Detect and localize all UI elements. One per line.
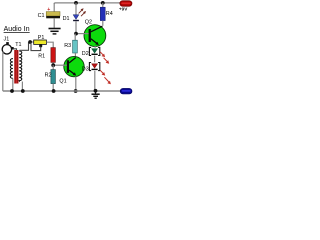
svg-text:Q1: Q1 [59,79,66,85]
svg-text:P1: P1 [38,35,45,41]
wire: top +9V rail [54,2,120,4]
wire: Q2 emitter to D2 [94,46,96,48]
transformer T1 secondary winding [19,51,22,82]
ground below C1 [49,29,61,34]
svg-text:R2: R2 [45,73,52,79]
svg-text:+9V: +9V [119,7,128,12]
svg-text:+: + [47,7,50,13]
svg-text:D1: D1 [63,16,70,22]
svg-text:Q2: Q2 [85,20,92,26]
resistor R4 [100,3,105,26]
wire: secondary to P1 [29,41,34,43]
wire: J1 sleeve to rail [2,52,5,91]
transistor Q1 [64,56,84,76]
wire: primary bottom to rail [12,78,14,91]
node: D1/R3/Q2-base junction [74,32,78,36]
svg-text:T1: T1 [15,42,21,48]
wire: Q1 emitter to rail [75,76,77,90]
pot P1 [31,40,46,51]
svg-text:R4: R4 [106,11,113,17]
battery positive terminal [120,1,132,7]
svg-text:C1: C1 [38,13,45,19]
wire: Q2 base [76,33,89,35]
svg-text:Audio In: Audio In [4,26,30,33]
node: secondary / rail [21,89,25,93]
transformer T1 core [14,50,18,84]
LED D2 [89,47,109,63]
svg-text:R3: R3 [64,43,71,49]
svg-text:D3: D3 [82,66,89,72]
resistor R2 [51,65,56,91]
wire: base junction to Q1 [53,64,67,66]
svg-text:D2: D2 [82,51,89,57]
wire: D3 to rail [94,71,96,91]
ground (main) [92,91,100,98]
node: rail / D1 junction [74,1,78,5]
transformer T1 primary winding [10,59,13,79]
capacitor C1 [46,3,60,28]
jack J1 [2,42,14,54]
wire: J1 tip to primary [14,49,17,53]
svg-text:R1: R1 [38,54,45,60]
svg-text:J1: J1 [4,37,10,43]
wire: secondary bottom to rail [21,82,23,92]
wire: D2 to D3 [94,56,96,63]
wire: right rail segment [53,3,55,4]
wire: bottom ground rail [3,90,120,92]
node: emitter / rail junction [74,89,78,93]
LED D1 [73,3,86,34]
wire: secondary top jog [19,42,28,50]
node: primary / rail [10,89,14,93]
resistor R1 [51,48,56,66]
LED D3 [89,63,111,85]
node: R2 / rail [52,89,56,93]
resistor R3 [73,34,78,58]
node: D3 / rail / ground junction [94,89,98,93]
wire: P1 to R1 [46,42,53,47]
node: R1/R2 junction [51,63,55,67]
node: P1 left junction [28,40,32,44]
battery negative terminal [120,88,132,94]
transistor Q2 [84,25,106,47]
node: rail / R6 junction [101,1,105,5]
